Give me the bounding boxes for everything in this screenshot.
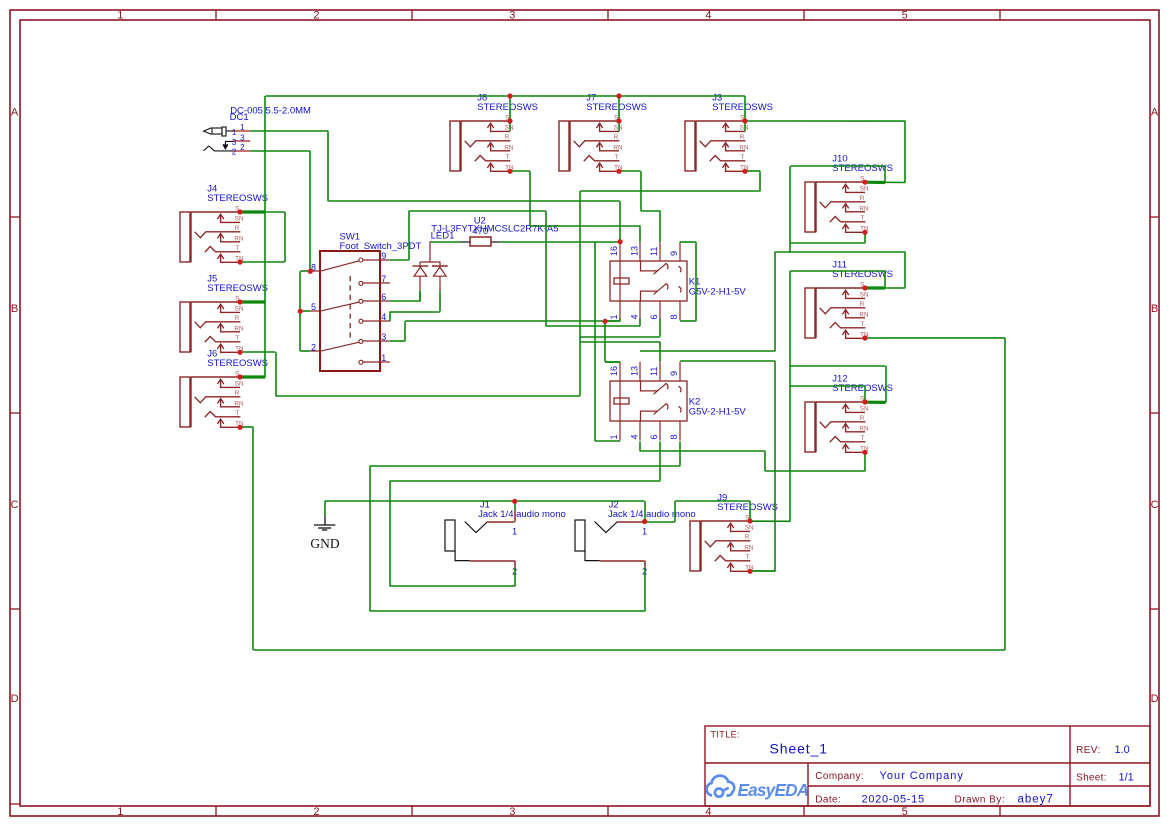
wire J9 TN stub bbox=[750, 570, 775, 572]
dual LED LED1 symbol bbox=[429, 241, 431, 261]
svg-text:G5V-2-H1-5V: G5V-2-H1-5V bbox=[689, 406, 747, 417]
svg-text:RN: RN bbox=[744, 544, 754, 551]
svg-text:1: 1 bbox=[232, 128, 237, 137]
svg-text:RN: RN bbox=[739, 144, 749, 151]
wire DC1 pin2 to SW1 pin8 bbox=[250, 151, 310, 271]
wire vertical rail x580 bbox=[579, 191, 581, 395]
svg-text:11: 11 bbox=[649, 367, 659, 376]
svg-text:4: 4 bbox=[630, 434, 640, 439]
svg-text:1: 1 bbox=[117, 806, 123, 818]
svg-text:T: T bbox=[235, 410, 239, 417]
svg-text:T: T bbox=[860, 435, 864, 442]
wire K2 pin13 to J11 S bbox=[640, 252, 905, 352]
wire K2 pin16 feed stub bbox=[605, 361, 620, 363]
svg-text:SN: SN bbox=[860, 185, 869, 192]
svg-text:1/1: 1/1 bbox=[1119, 772, 1134, 784]
svg-text:1: 1 bbox=[512, 526, 517, 536]
label J12 STEREOSWS bbox=[832, 373, 893, 394]
svg-text:R: R bbox=[235, 225, 240, 232]
foot switch SW1 3PDT body bbox=[320, 251, 380, 371]
svg-text:R: R bbox=[235, 315, 240, 322]
relay K1 pin numbers bbox=[609, 246, 679, 320]
svg-text:16: 16 bbox=[609, 366, 619, 376]
svg-text:6: 6 bbox=[649, 314, 659, 319]
svg-text:2: 2 bbox=[232, 148, 237, 157]
svg-text:T: T bbox=[614, 154, 618, 161]
wire LED cathode A green bbox=[419, 291, 421, 302]
wire J7 TN to K1 pin11 bbox=[619, 171, 661, 242]
svg-text:DC1: DC1 bbox=[230, 112, 249, 123]
svg-text:2: 2 bbox=[240, 143, 245, 152]
svg-text:B: B bbox=[11, 303, 18, 315]
svg-text:1.0: 1.0 bbox=[1115, 744, 1130, 756]
svg-text:1: 1 bbox=[240, 123, 245, 132]
svg-text:SN: SN bbox=[235, 380, 244, 387]
wire J6 TN big loop to J11 TN bbox=[240, 338, 1005, 650]
mono jack J2 symbol bbox=[575, 520, 585, 551]
label J3 STEREOSWS bbox=[712, 92, 773, 113]
svg-text:R: R bbox=[860, 195, 865, 202]
wire J10 TN loop to J11 chain bbox=[790, 166, 905, 252]
stereo switched jack J10 (STEREOSWS) bbox=[805, 175, 869, 232]
svg-text:RN: RN bbox=[234, 235, 244, 242]
svg-text:9: 9 bbox=[381, 251, 386, 261]
svg-text:2020-05-15: 2020-05-15 bbox=[862, 793, 925, 805]
wire K2 pin9 to J9 TN bbox=[680, 361, 775, 571]
svg-text:Sheet_1: Sheet_1 bbox=[770, 741, 828, 757]
svg-text:T: T bbox=[235, 335, 239, 342]
svg-text:R: R bbox=[505, 134, 510, 141]
wire K1 pin6 branch bbox=[580, 319, 660, 338]
svg-text:STEREOSWS: STEREOSWS bbox=[586, 102, 647, 113]
wire J12 S stub (thick) bbox=[865, 401, 886, 404]
relay K2 pins bbox=[620, 362, 680, 441]
stereo switched jack J3 (STEREOSWS) bbox=[685, 114, 749, 171]
label J9 STEREOSWS bbox=[717, 492, 778, 513]
svg-text:4: 4 bbox=[630, 314, 640, 319]
wire +9V top bus bbox=[265, 95, 745, 97]
stereo switched jack J4 (STEREOSWS) bbox=[180, 205, 244, 262]
wire K1 pin9 to pin8 loop bbox=[680, 242, 696, 322]
svg-text:T: T bbox=[505, 154, 509, 161]
wire J8 TN to K1 pin13 bbox=[510, 171, 641, 242]
wire J11 S feed jog bbox=[790, 271, 885, 288]
svg-text:RN: RN bbox=[234, 325, 244, 332]
svg-text:8: 8 bbox=[669, 314, 679, 319]
svg-text:Drawn By:: Drawn By: bbox=[955, 794, 1006, 805]
svg-text:6: 6 bbox=[381, 292, 386, 302]
wire J3 S drop bbox=[744, 96, 746, 131]
wire SW1 pins 8-5-2 common bbox=[300, 271, 310, 351]
label J10 STEREOSWS bbox=[832, 153, 893, 174]
svg-text:TITLE:: TITLE: bbox=[711, 730, 740, 740]
svg-text:abey7: abey7 bbox=[1018, 793, 1054, 805]
wire K1 pin1 stub bbox=[605, 320, 620, 322]
svg-text:RN: RN bbox=[613, 144, 623, 151]
svg-text:13: 13 bbox=[630, 366, 640, 376]
relay K2 pin numbers bbox=[609, 366, 679, 440]
label J5 STEREOSWS bbox=[207, 273, 268, 294]
svg-text:5: 5 bbox=[311, 302, 316, 312]
frame division ticks bbox=[215, 10, 217, 20]
svg-text:8: 8 bbox=[669, 434, 679, 439]
wire K2 pin4 to J12 TN bbox=[640, 441, 865, 471]
svg-text:G5V-2-H1-5V: G5V-2-H1-5V bbox=[689, 286, 747, 297]
wire J6 S stub (thick) bbox=[240, 375, 265, 378]
svg-text:Sheet:: Sheet: bbox=[1076, 773, 1107, 784]
wire K2 pin11 branch bbox=[580, 342, 660, 362]
svg-text:RN: RN bbox=[504, 144, 514, 151]
svg-text:RN: RN bbox=[859, 311, 869, 318]
relay K1 body G5V-2-H1-5V bbox=[610, 261, 687, 301]
svg-text:SN: SN bbox=[235, 215, 244, 222]
svg-text:T: T bbox=[745, 554, 749, 561]
wire J2 tip to J9 S bbox=[645, 501, 791, 522]
svg-text:R: R bbox=[614, 134, 619, 141]
svg-text:STEREOSWS: STEREOSWS bbox=[207, 283, 268, 294]
svg-text:C: C bbox=[11, 499, 19, 511]
stereo switched jack J9 (STEREOSWS) bbox=[690, 514, 754, 571]
svg-text:Jack 1/4 audio mono: Jack 1/4 audio mono bbox=[478, 509, 566, 520]
svg-text:REV:: REV: bbox=[1076, 745, 1101, 756]
svg-text:A: A bbox=[11, 107, 19, 119]
svg-text:R: R bbox=[740, 134, 745, 141]
EasyEDA logo bbox=[707, 776, 735, 796]
label J4 STEREOSWS bbox=[207, 183, 268, 204]
label J8 STEREOSWS bbox=[477, 92, 538, 113]
svg-text:1: 1 bbox=[117, 9, 123, 21]
svg-text:GND: GND bbox=[310, 536, 339, 551]
wire SW1 pin3 to K1 pin1 and K2 pin16 bbox=[390, 319, 620, 363]
svg-text:3: 3 bbox=[240, 133, 245, 142]
stereo switched jack J12 (STEREOSWS) bbox=[805, 395, 869, 452]
svg-text:1: 1 bbox=[642, 526, 647, 536]
svg-text:R: R bbox=[860, 301, 865, 308]
svg-text:STEREOSWS: STEREOSWS bbox=[207, 193, 268, 204]
wire J12 S feeds bbox=[790, 366, 886, 402]
svg-text:SN: SN bbox=[860, 405, 869, 412]
svg-text:STEREOSWS: STEREOSWS bbox=[832, 163, 893, 174]
label J11 STEREOSWS bbox=[832, 259, 893, 280]
svg-text:Date:: Date: bbox=[815, 794, 841, 805]
wire resistor net to K2 pin1 bbox=[595, 242, 620, 442]
wire left bus vertical to J4 J5 J6 S bbox=[264, 96, 266, 377]
svg-text:1: 1 bbox=[381, 353, 386, 363]
svg-text:STEREOSWS: STEREOSWS bbox=[832, 383, 893, 394]
wire K2 pin8 to J2 sleeve bbox=[370, 441, 681, 611]
svg-text:D: D bbox=[11, 693, 19, 705]
svg-text:SN: SN bbox=[745, 524, 754, 531]
relay K2 body G5V-2-H1-5V bbox=[610, 381, 687, 421]
svg-text:RN: RN bbox=[859, 425, 869, 432]
svg-text:4: 4 bbox=[705, 9, 711, 21]
svg-text:3: 3 bbox=[509, 806, 515, 818]
label J7 STEREOSWS bbox=[586, 92, 647, 113]
svg-text:5: 5 bbox=[902, 9, 908, 21]
wire J10 S stub (thick) bbox=[865, 181, 885, 185]
svg-text:LED1: LED1 bbox=[431, 230, 455, 241]
svg-text:2: 2 bbox=[313, 806, 319, 818]
mono jack J1 symbol bbox=[445, 520, 455, 551]
svg-text:R: R bbox=[235, 390, 240, 397]
svg-text:Company:: Company: bbox=[815, 771, 864, 782]
wire J5 TN run bbox=[240, 352, 580, 396]
wire J3 TN to left rail bbox=[580, 171, 760, 191]
wire J4 S stub (thick) bbox=[240, 210, 265, 213]
svg-text:11: 11 bbox=[649, 247, 659, 256]
wire J3 S to J10 S bbox=[745, 121, 905, 183]
svg-text:SN: SN bbox=[860, 291, 869, 298]
wire K2 pin6 to J1 sleeve bbox=[390, 441, 660, 586]
svg-text:B: B bbox=[1151, 303, 1158, 315]
svg-text:STEREOSWS: STEREOSWS bbox=[717, 502, 778, 513]
wire SW1 pin9 to K1 pin4 bbox=[390, 211, 640, 326]
ground symbol GND bbox=[324, 501, 326, 516]
svg-text:RN: RN bbox=[859, 205, 869, 212]
stereo switched jack J8 (STEREOSWS) bbox=[450, 114, 514, 171]
svg-text:3: 3 bbox=[381, 332, 386, 342]
wire J7 S drop bbox=[618, 96, 620, 131]
svg-text:3: 3 bbox=[232, 138, 237, 147]
svg-text:3: 3 bbox=[509, 9, 515, 21]
svg-text:9: 9 bbox=[669, 251, 679, 256]
svg-text:T: T bbox=[740, 154, 744, 161]
svg-text:Jack 1/4 audio mono: Jack 1/4 audio mono bbox=[608, 509, 696, 520]
svg-text:9: 9 bbox=[669, 371, 679, 376]
power jack DC1 symbol bbox=[204, 128, 212, 135]
svg-text:U2: U2 bbox=[474, 216, 486, 227]
svg-text:EasyEDA: EasyEDA bbox=[738, 780, 809, 800]
svg-text:RN: RN bbox=[234, 400, 244, 407]
svg-text:R: R bbox=[745, 534, 750, 541]
relay K1 pins bbox=[620, 242, 680, 321]
svg-text:T: T bbox=[860, 215, 864, 222]
svg-text:Your Company: Your Company bbox=[880, 770, 964, 782]
svg-text:1: 1 bbox=[609, 434, 619, 439]
wire J4 S to TN loop bbox=[240, 212, 285, 262]
title block frame bbox=[705, 726, 1150, 806]
wire GND to J1 J2 tips bbox=[325, 501, 645, 522]
stereo switched jack J6 (STEREOSWS) bbox=[180, 370, 244, 427]
stereo switched jack J11 (STEREOSWS) bbox=[805, 281, 869, 338]
svg-text:470: 470 bbox=[472, 226, 488, 237]
svg-text:R: R bbox=[860, 415, 865, 422]
svg-text:STEREOSWS: STEREOSWS bbox=[477, 102, 538, 113]
wire J11 S stub (thick) bbox=[865, 286, 885, 289]
wire SW1 pin6 to LED1 cathode A bbox=[390, 291, 421, 302]
stereo switched jack J7 (STEREOSWS) bbox=[559, 114, 623, 171]
svg-text:2: 2 bbox=[311, 342, 316, 352]
svg-text:7: 7 bbox=[381, 274, 386, 284]
svg-text:6: 6 bbox=[649, 434, 659, 439]
svg-text:A: A bbox=[1151, 107, 1159, 119]
svg-text:2: 2 bbox=[313, 9, 319, 21]
wire DC1 pin1 to K1 pin16 (+9V) bbox=[250, 131, 620, 242]
svg-text:T: T bbox=[860, 321, 864, 328]
svg-text:4: 4 bbox=[381, 312, 386, 322]
svg-text:16: 16 bbox=[609, 246, 619, 256]
label J6 STEREOSWS bbox=[207, 348, 268, 369]
wire J8 S drop bbox=[509, 96, 511, 131]
svg-text:D: D bbox=[1151, 693, 1159, 705]
svg-text:SN: SN bbox=[235, 305, 244, 312]
svg-text:13: 13 bbox=[630, 246, 640, 256]
svg-text:STEREOSWS: STEREOSWS bbox=[207, 358, 268, 369]
svg-text:1: 1 bbox=[609, 314, 619, 319]
svg-text:C: C bbox=[1151, 499, 1159, 511]
svg-text:STEREOSWS: STEREOSWS bbox=[712, 102, 773, 113]
wire GND-chain vertical x790 bbox=[789, 271, 791, 522]
svg-text:T: T bbox=[235, 245, 239, 252]
svg-text:4: 4 bbox=[705, 806, 711, 818]
wire LED anode resistor to K1 pin16 bbox=[430, 241, 620, 243]
wire SW1 pin4 to LED1 cathode B bbox=[390, 291, 440, 322]
svg-text:5: 5 bbox=[902, 806, 908, 818]
resistor U2 470 ohm bbox=[461, 241, 471, 243]
stereo switched jack J5 (STEREOSWS) bbox=[180, 295, 244, 352]
wire J5 S stub (thick) bbox=[240, 300, 265, 303]
